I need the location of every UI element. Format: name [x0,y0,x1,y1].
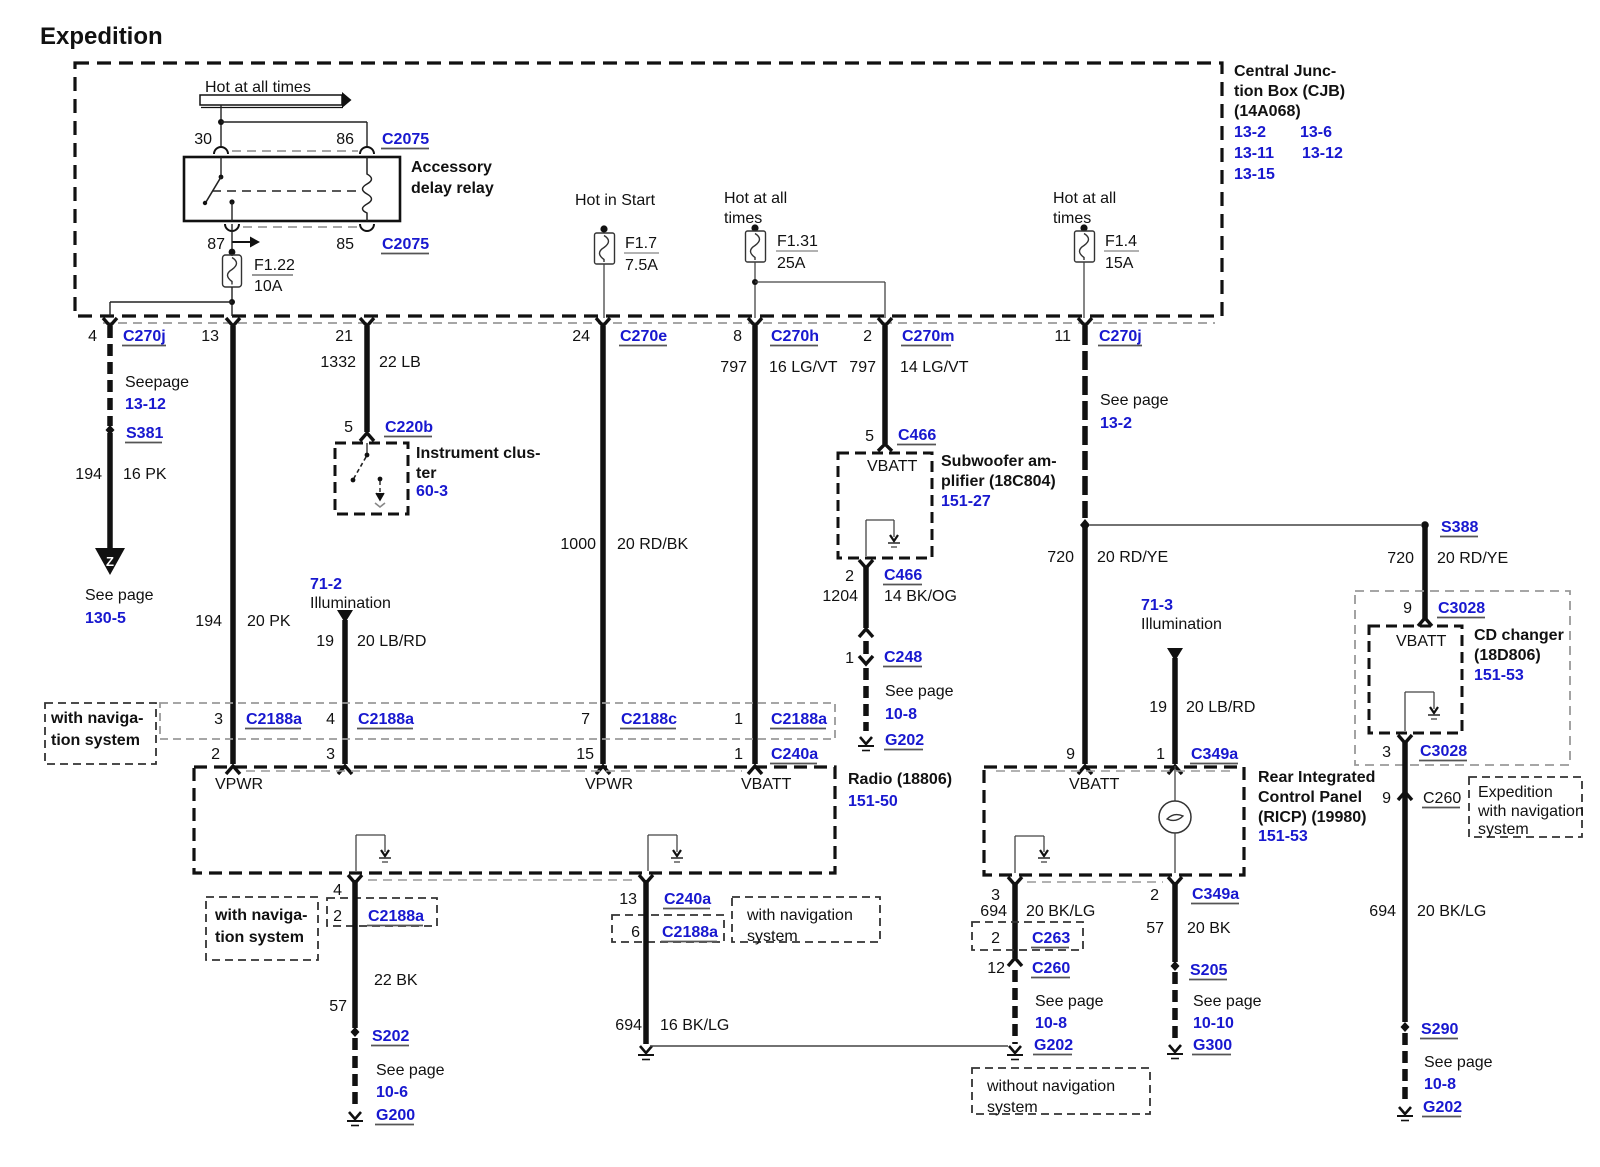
svg-text:4: 4 [326,711,335,728]
CD changer dashed box [1369,626,1462,733]
gray connector dash line C2075 bottom [243,226,358,228]
svg-text:(14A068): (14A068) [1234,103,1301,120]
fuse F1.31 value label [776,233,818,272]
splice S381 label [125,425,163,443]
svg-text:13: 13 [201,328,219,345]
connector C2188c label [620,711,677,729]
branch wire to C270m [755,281,885,283]
svg-text:694: 694 [615,1017,642,1034]
connector C3028 bottom label [1419,743,1467,761]
RICP entry arrow pin9 [1078,766,1092,774]
svg-text:F1.22: F1.22 [254,257,295,274]
svg-text:9: 9 [1403,600,1412,617]
svg-text:Rear Integrated: Rear Integrated [1258,769,1375,786]
wire down to CJB edge pin4 [109,302,111,316]
svg-text:16 PK: 16 PK [123,466,167,483]
svg-text:VBATT: VBATT [1396,633,1447,650]
svg-text:9: 9 [1066,746,1075,763]
gray connector line RICP bottom [1027,881,1163,883]
svg-text:with navigation: with navigation [1477,803,1584,820]
svg-text:F1.7: F1.7 [625,235,657,252]
Hot at all times label (F1.4) [1053,190,1116,227]
svg-text:1204: 1204 [822,588,858,605]
junction diamond S-branch [1080,519,1090,531]
svg-text:71-3: 71-3 [1141,597,1173,614]
ground symbol G202 subwoofer [858,737,874,751]
svg-text:85: 85 [336,236,354,253]
svg-text:(RICP) (19980): (RICP) (19980) [1258,809,1366,826]
svg-text:Seepage: Seepage [125,374,189,391]
svg-text:system: system [747,928,798,945]
wire below fuse F1.22 [231,287,233,316]
svg-text:1: 1 [734,711,743,728]
svg-text:151-53: 151-53 [1474,667,1524,684]
svg-text:C349a: C349a [1192,886,1239,903]
fuse F1.4 feed dot [1080,224,1087,231]
connector C2188a label 1 [245,711,302,729]
svg-text:S290: S290 [1421,1021,1458,1038]
svg-text:7.5A: 7.5A [625,257,658,274]
connector C260 inline arrow [1008,958,1022,966]
wire subwoofer pin2 down [863,566,869,628]
splice S290 label [1420,1021,1458,1039]
svg-text:19: 19 [1149,699,1167,716]
subwoofer internal ground [866,520,900,556]
splice S205 label [1189,962,1227,980]
svg-text:See page: See page [1035,993,1104,1010]
wire dashed to G202 [863,668,869,731]
svg-text:Accessory: Accessory [411,159,492,176]
radio name label [848,771,952,810]
wire dashed CD to G202 [1402,1033,1408,1103]
svg-text:11: 11 [1054,328,1071,345]
svg-text:CD changer: CD changer [1474,627,1564,644]
splice S388 label [1440,519,1478,537]
wire branch down to edge pin2 [884,282,886,318]
svg-text:C2188a: C2188a [771,711,827,728]
radio exit arrow pin13 [639,875,653,883]
CJB label text [1234,63,1345,183]
svg-text:C270j: C270j [123,328,166,345]
svg-text:Expedition: Expedition [1478,784,1553,801]
Expedition with navigation system box [1469,777,1584,838]
svg-text:tion system: tion system [51,732,140,749]
RICP name label [1258,769,1375,845]
cluster internal switch [351,443,370,482]
svg-text:C2075: C2075 [382,131,429,148]
svg-text:VBATT: VBATT [741,776,792,793]
svg-text:C2188c: C2188c [621,711,677,728]
instrument cluster label [416,445,540,500]
svg-text:71-2: 71-2 [310,576,342,593]
svg-text:25A: 25A [777,255,806,272]
wire pin4 dashed segment [107,326,113,426]
svg-text:Radio (18806): Radio (18806) [848,771,952,788]
branch wire to pin 4 [110,301,232,303]
C2188 connector row dashed box [160,703,835,739]
svg-text:C260: C260 [1423,790,1461,807]
wire pin11 solid to RICP [1082,525,1088,764]
node dot at branch [218,119,224,125]
ground symbol G200 [347,1112,363,1126]
ground symbol G202 RICP [1007,1046,1023,1060]
svg-text:2: 2 [333,908,342,925]
with navigation system box upper left [45,703,156,764]
svg-text:Control Panel: Control Panel [1258,789,1362,806]
CD changer internal ground [1405,692,1440,731]
svg-text:13-11: 13-11 [1234,145,1274,162]
wire dashed RICP pin2 to G300 [1172,972,1178,1042]
junction dot above fuse [229,249,236,256]
svg-text:20 RD/YE: 20 RD/YE [1437,550,1508,567]
ground symbol radio pin13 [638,1046,654,1060]
connector C248 label [883,649,922,667]
svg-text:See page: See page [1424,1054,1493,1071]
svg-text:30: 30 [194,131,212,148]
edge arrow pin 11 [1078,318,1092,326]
svg-text:1332: 1332 [320,354,356,371]
svg-text:694: 694 [980,903,1007,920]
svg-text:22 LB: 22 LB [379,354,421,371]
svg-text:S381: S381 [126,425,163,442]
svg-text:20 RD/BK: 20 RD/BK [617,536,688,553]
svg-text:13-12: 13-12 [1302,145,1343,162]
fuse F1.31 feed dot [751,224,758,231]
RICP exit arrow pin2 [1168,877,1182,885]
svg-text:151-27: 151-27 [941,493,991,510]
svg-text:with navigation: with navigation [746,907,853,924]
connector C2075 top label [381,131,429,149]
svg-text:C240a: C240a [771,746,818,763]
without navigation system box [972,1068,1150,1116]
splice S381 diamond [106,425,115,435]
svg-text:See page: See page [885,683,954,700]
svg-text:VBATT: VBATT [1069,776,1120,793]
edge arrow pin 13 [226,318,240,326]
connector C260 label RICP [1031,960,1070,978]
arrow out of CD changer pin3 [1398,735,1412,743]
wire F1.4 down to edge [1083,262,1085,318]
radio exit arrow pin4 [348,875,362,883]
connector C260 label CD [1422,790,1461,808]
svg-text:C3028: C3028 [1438,600,1485,617]
svg-text:VPWR: VPWR [585,776,633,793]
wire pin13 to radio [230,326,236,764]
svg-text:tion Box (CJB): tion Box (CJB) [1234,83,1345,100]
svg-text:VPWR: VPWR [215,776,263,793]
svg-text:system: system [1478,821,1529,838]
svg-text:Central Junc-: Central Junc- [1234,63,1336,80]
svg-text:10-6: 10-6 [376,1084,408,1101]
radio dashed box [194,767,835,873]
relay switch [203,157,235,221]
connector arc pin 87 bottom [225,224,239,231]
radio entry arrow pin2 [226,766,240,774]
svg-text:20 LB/RD: 20 LB/RD [1186,699,1255,716]
svg-text:57: 57 [1146,920,1164,937]
svg-text:194: 194 [195,613,222,630]
svg-text:7: 7 [581,711,590,728]
wire branch to pin 86 [221,121,367,123]
svg-text:86: 86 [336,131,354,148]
subwoofer amplifier dashed box [838,453,932,558]
connector arc pin 86 [360,147,374,154]
svg-text:14 BK/OG: 14 BK/OG [884,588,957,605]
svg-text:151-53: 151-53 [1258,828,1308,845]
connector C248 inline arrows [859,629,873,664]
svg-text:1: 1 [734,746,743,763]
RICP illumination lamp [1159,766,1191,873]
ground bus wire to RICP G202 [650,1045,1008,1047]
svg-text:60-3: 60-3 [416,483,448,500]
pin 87 branch arrow [232,237,260,248]
svg-text:24: 24 [572,328,590,345]
wire from banner to node B30 [220,105,222,148]
svg-text:Illumination: Illumination [310,595,391,612]
relay coil [363,157,372,221]
svg-text:14 LG/VT: 14 LG/VT [900,359,969,376]
wire pin24 to radio [600,326,606,764]
svg-text:10-8: 10-8 [885,706,917,723]
connector C260 inline arrow CD [1398,792,1412,800]
connector arc pin 30 [214,147,228,154]
svg-text:797: 797 [849,359,876,376]
gray connector dash line below CJB edge [103,322,1215,324]
svg-text:10-10: 10-10 [1193,1015,1234,1032]
radio internal ground right [648,835,683,871]
wire dashed RICP pin3 to G202 [1012,970,1018,1044]
svg-text:4: 4 [88,328,97,345]
svg-text:plifier (18C804): plifier (18C804) [941,473,1056,490]
svg-text:delay relay: delay relay [411,180,494,197]
svg-text:13-12: 13-12 [125,396,166,413]
Hot at all times arrow banner [200,92,352,108]
edge arrow pin 24 [596,318,610,326]
svg-text:10-8: 10-8 [1035,1015,1067,1032]
connector C2188a label 2 [357,711,414,729]
splice S202 label [371,1028,409,1046]
connector C2075 bottom label [381,236,429,254]
edge arrow pin 21 [360,318,374,326]
svg-text:5: 5 [865,428,874,445]
svg-text:3: 3 [214,711,223,728]
arrow into subwoofer [878,444,892,451]
svg-text:720: 720 [1387,550,1414,567]
wire RICP pin2 down [1172,882,1178,962]
svg-text:797: 797 [720,359,747,376]
wire illumination to RICP [1172,658,1178,764]
svg-text:1000: 1000 [560,536,596,553]
relay label [411,159,494,197]
svg-text:C349a: C349a [1191,746,1238,763]
svg-text:F1.31: F1.31 [777,233,818,250]
svg-text:87: 87 [207,236,225,253]
svg-text:Illumination: Illumination [1141,616,1222,633]
svg-text:15: 15 [576,746,594,763]
svg-text:6: 6 [631,924,640,941]
svg-text:3: 3 [991,887,1000,904]
RICP exit arrow pin3 [1008,877,1022,885]
svg-text:20 BK: 20 BK [1187,920,1231,937]
svg-text:system: system [987,1099,1038,1116]
svg-text:times: times [724,210,762,227]
wire pin4 solid segment [107,433,113,549]
radio internal ground left [356,835,391,871]
ground symbol G300 [1167,1045,1183,1059]
ground G300 label [1192,1037,1232,1055]
svg-text:694: 694 [1369,903,1396,920]
fuse F1.7 value label [624,235,659,274]
relay actuation dashed line [212,190,359,192]
svg-text:57: 57 [329,998,347,1015]
ground G202 label RICP [1033,1037,1073,1055]
junction dot below fuse [229,299,235,305]
svg-text:20 LB/RD: 20 LB/RD [357,633,426,650]
illumination 71-3 note [1141,597,1222,633]
fuse F1.22 value label [252,257,295,295]
edge arrow pin 8 [748,318,762,326]
Central Junction Box CJB dashed outline [75,63,1222,316]
svg-text:194: 194 [75,466,102,483]
svg-text:C240a: C240a [664,891,711,908]
svg-text:2: 2 [211,746,220,763]
svg-text:C2188a: C2188a [246,711,302,728]
svg-text:13: 13 [619,891,637,908]
connector box 2 C2188a [327,898,437,926]
svg-text:13-2: 13-2 [1234,124,1266,141]
fuse F1.4 value label [1104,233,1139,272]
subwoofer label [941,453,1057,510]
svg-text:13-15: 13-15 [1234,166,1275,183]
svg-text:C3028: C3028 [1420,743,1467,760]
svg-text:3: 3 [1382,744,1391,761]
svg-text:See page: See page [376,1062,445,1079]
svg-text:15A: 15A [1105,255,1134,272]
connector C270j label right [1098,328,1142,346]
with navigation box lower left [206,897,318,960]
connector C2188a label 3 [770,711,827,729]
svg-text:C270m: C270m [902,328,954,345]
fuse F1.22 [223,255,242,287]
gray connector line RICP top [996,770,1232,772]
ground symbol G202 CD [1397,1107,1413,1121]
fuse F1.4 [1075,231,1095,262]
instrument cluster dashed box [335,443,408,514]
connector C349a label top [1190,746,1238,764]
illumination feed arrow 71-2 [337,610,353,623]
svg-text:3: 3 [326,746,335,763]
svg-text:20 BK/LG: 20 BK/LG [1026,903,1095,920]
svg-text:13-6: 13-6 [1300,124,1332,141]
RICP dashed box [984,767,1244,875]
svg-text:with naviga-: with naviga- [50,710,143,727]
svg-text:12: 12 [987,960,1005,977]
svg-text:2: 2 [845,568,854,585]
RICP internal ground [1015,836,1050,873]
CD changer name label [1474,627,1564,684]
svg-text:2: 2 [1150,887,1159,904]
svg-text:Subwoofer am-: Subwoofer am- [941,453,1057,470]
wire pin11 dashed down [1082,326,1088,518]
svg-text:5: 5 [344,419,353,436]
svg-text:G202: G202 [885,732,924,749]
splice S388 dot [1421,521,1429,529]
svg-text:20 RD/YE: 20 RD/YE [1097,549,1168,566]
wire illumination to radio [342,620,348,764]
Hot at all times label (F1.31) [724,190,787,227]
svg-text:VBATT: VBATT [867,458,918,475]
svg-text:tion system: tion system [215,929,304,946]
svg-text:G202: G202 [1423,1099,1462,1116]
with navigation box lower right [732,897,880,945]
edge arrow pin 2 [878,318,892,326]
arrow into cluster [360,433,374,441]
svg-text:Hot in Start: Hot in Start [575,192,656,209]
ground G200 label [375,1107,415,1125]
svg-text:G202: G202 [1034,1037,1073,1054]
svg-text:C270j: C270j [1099,328,1142,345]
svg-text:See page: See page [1100,392,1169,409]
svg-text:C220b: C220b [385,419,433,436]
svg-text:S205: S205 [1190,962,1227,979]
wire down to relay pin 86 [366,122,368,148]
svg-text:13-2: 13-2 [1100,415,1132,432]
fuse F1.31 [746,231,766,262]
svg-text:9: 9 [1382,790,1391,807]
svg-text:C466: C466 [898,427,936,444]
svg-text:C2075: C2075 [382,236,429,253]
svg-text:16 LG/VT: 16 LG/VT [769,359,838,376]
svg-text:C2188a: C2188a [368,908,424,925]
connector arc pin 85 bottom [360,224,374,231]
svg-text:Hot at all: Hot at all [724,190,787,207]
svg-text:without navigation: without navigation [986,1078,1115,1095]
connector C220b label [384,419,433,437]
gray connector line radio bottom [368,879,634,881]
svg-text:2: 2 [863,328,872,345]
connector box 6 C2188a [612,915,724,942]
svg-text:times: times [1053,210,1091,227]
CD changer outer gray dashed box [1355,591,1570,765]
svg-text:S202: S202 [372,1028,409,1045]
wire pin8 to radio [752,326,758,764]
arrow out of subwoofer pin2 [859,560,873,568]
ground G202 label subwoofer [884,732,924,750]
branch wire to S388 [1090,524,1421,526]
svg-text:20 BK/LG: 20 BK/LG [1417,903,1486,920]
svg-text:with naviga-: with naviga- [214,907,307,924]
connector C349a label bottom [1191,886,1239,904]
svg-text:C466: C466 [884,567,922,584]
svg-text:C260: C260 [1032,960,1070,977]
wire pin87 to fuse [231,224,233,256]
svg-text:4: 4 [333,882,342,899]
svg-text:151-50: 151-50 [848,793,898,810]
ground G202 label CD [1422,1099,1462,1117]
illumination feed arrow 71-3 [1167,648,1183,661]
connector C240a label bottom [663,891,711,909]
svg-text:F1.4: F1.4 [1105,233,1137,250]
svg-text:720: 720 [1047,549,1074,566]
svg-text:19: 19 [316,633,334,650]
connector C3028 top label [1437,600,1485,618]
svg-text:Expedition: Expedition [40,23,163,50]
svg-text:1: 1 [845,650,854,667]
wire F1.7 to edge [603,264,605,318]
gray connector dash line C2075 top [232,150,358,152]
svg-text:Z: Z [106,554,114,569]
svg-text:Hot at all: Hot at all [1053,190,1116,207]
